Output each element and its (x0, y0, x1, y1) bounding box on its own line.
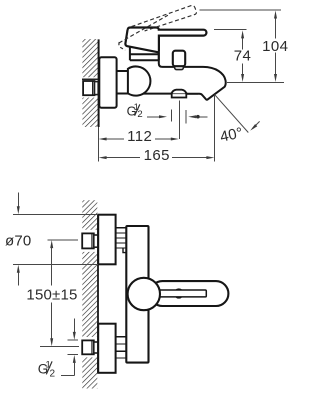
dia70 bottom arrow stem (17, 273, 19, 286)
connector bottom line flange to body (117, 93, 129, 95)
shower outlet base plate (side view) (172, 93, 187, 97)
wall face line (side view) (98, 39, 100, 127)
wall hatch middle (front view) (82, 252, 97, 337)
extension line at dashed lever tip (y=10) (200, 9, 281, 11)
G1/2 lower: upper tick (68, 339, 79, 341)
svg-text:ø70: ø70 (5, 233, 31, 250)
dia70 bottom extension line (13, 263, 98, 265)
spout bottom edge left segment (129, 93, 172, 95)
svg-text:150±15: 150±15 (26, 286, 77, 303)
union nut facet line (92, 81, 94, 95)
upper thread step (123, 248, 126, 253)
G1/2 left arrow line (147, 116, 162, 118)
svg-text:74: 74 (234, 47, 252, 64)
svg-text:2: 2 (137, 109, 142, 120)
dia70 bottom arrowhead up (17, 265, 20, 273)
extension line at spout tip level (y=82.4) (227, 81, 284, 83)
union nut (side view) (83, 81, 94, 95)
lever outer (front view) (150, 281, 228, 306)
lever grip bar (158, 290, 206, 297)
G1/2 lower: upper arrow stem (73, 319, 75, 333)
arrow 104 up (274, 11, 277, 19)
arrow 165 right (206, 156, 214, 159)
extension line at solid lever top (y=29.5) (214, 29, 247, 31)
spout bottom edge right segment (186, 93, 198, 95)
wall flange / escutcheon (side view) (99, 57, 116, 107)
handle dashed raised lever (132, 6, 197, 31)
150 top arrowhead up (50, 240, 53, 248)
lower union nut (front view) (82, 340, 94, 354)
150 dim bottom ref line (40, 346, 79, 348)
svg-text:2: 2 (50, 368, 56, 379)
cartridge neck (side view) (130, 45, 159, 60)
lower flange (front view) (98, 324, 115, 373)
G1/2 lower: leader vertical (73, 363, 75, 376)
diverter knob (side view) (173, 51, 185, 66)
lower union nut facet (91, 340, 93, 354)
wall hatch top (front view) (82, 200, 97, 230)
G1/2 right arrow line (194, 116, 208, 118)
lever screw circle (174, 289, 183, 298)
handle pivot circle (front view) (128, 278, 160, 310)
40 degree leader line (215, 95, 249, 133)
spout corner extension line down (214, 95, 216, 162)
arrow 104 down (274, 74, 277, 82)
G1/2 lower: upper arrowhead down (73, 332, 76, 340)
wall hatch upper (side view) (82, 39, 98, 77)
arrow 74 up (241, 30, 244, 38)
body bar (front view) (126, 226, 148, 363)
150 stem lower (51, 303, 53, 339)
valve body D-shape (side view) (128, 66, 151, 95)
arrow 165 left (99, 156, 107, 159)
arrow 112 right (171, 138, 179, 141)
150 dim top ref line (48, 239, 79, 241)
handle dashed corner (119, 42, 125, 50)
svg-text:112: 112 (127, 128, 152, 145)
dimension 165 line (105, 157, 207, 159)
union collar (side view) (95, 82, 99, 95)
G1/2 right arrowhead (188, 115, 196, 118)
svg-text:104: 104 (262, 38, 288, 55)
wall hatch lower (side view) (82, 98, 98, 127)
upper thread lines (116, 228, 127, 248)
arrow 112 left (99, 138, 107, 141)
40 degree arrowhead (250, 124, 257, 131)
upper union nut (front view) (82, 233, 94, 248)
lower union collar (94, 342, 98, 353)
handle dashed body edge (119, 15, 168, 43)
G1/2 lower: lower tick (68, 354, 79, 356)
diverter knob base collar (175, 65, 184, 70)
lower thread lines (116, 337, 127, 358)
dia70 top extension line (13, 214, 98, 216)
dia70 top arrow stem (17, 192, 19, 206)
extension tick right of shower outlet (185, 110, 187, 124)
upper union collar (94, 235, 98, 247)
dimension 104 stem (275, 17, 277, 77)
G1/2 lower: lower arrowhead up (73, 355, 76, 363)
shower outlet centerline extension (179, 101, 181, 140)
upper flange (front view) (98, 215, 115, 265)
spout outline (side view) (159, 52, 226, 100)
node dot on arrow line (196, 115, 200, 119)
wall hatch bottom (front view) (82, 357, 97, 388)
G1/2 lower: leader horizontal (61, 374, 75, 376)
svg-text:165: 165 (144, 147, 170, 164)
upper union nut facet (91, 233, 93, 248)
wall face line (front view) (97, 215, 99, 373)
connector top line flange to body (117, 70, 128, 72)
wall extension line down to dimensions (97, 127, 99, 162)
40 degree arrow line (253, 121, 260, 128)
dia70 top arrowhead down (17, 206, 20, 214)
dimension 74 stem (242, 37, 244, 78)
arrow 74 down (241, 74, 244, 82)
dimension 112 line (105, 138, 173, 140)
union top line above nut (side view) (82, 78, 98, 80)
150 bottom arrowhead down (50, 338, 53, 346)
shower outlet dome (side view) (172, 90, 187, 94)
handle solid (side view) (125, 28, 206, 53)
extension tick left of shower outlet (170, 110, 172, 122)
G1/2 left arrowhead (159, 115, 167, 118)
150 stem upper (51, 248, 53, 286)
